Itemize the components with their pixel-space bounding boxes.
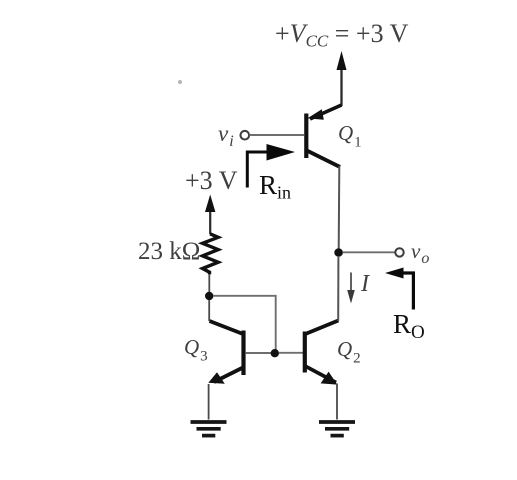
collector diagonal	[305, 321, 338, 335]
label Q2	[337, 339, 361, 360]
wire vi to Q1 base	[250, 134, 305, 136]
output node dot	[334, 248, 343, 257]
wire output node to vo terminal	[343, 251, 395, 253]
ground (under Q3)	[191, 422, 227, 436]
node B (base junction)	[271, 349, 279, 357]
label +VCC = +3 V	[275, 21, 408, 47]
emitter diagonal with arrow	[306, 367, 336, 383]
current arrow I	[347, 273, 355, 304]
collector diagonal	[210, 321, 244, 334]
base bar	[304, 114, 308, 159]
transistor Q3 (NPN, diode-connected, mirrored)	[208, 321, 243, 384]
stray scan speck	[178, 80, 182, 84]
wire resistor to node	[208, 274, 210, 294]
power +VCC supply arrow	[337, 51, 347, 106]
label vi	[218, 122, 234, 145]
label Q1	[338, 123, 362, 144]
label Q3	[184, 337, 208, 358]
wire Q1 collector down to output node	[338, 166, 341, 249]
wire junction to Q2 base	[279, 352, 303, 354]
base bar	[241, 331, 245, 376]
transistor Q1 (PNP)	[306, 105, 341, 167]
label vo	[411, 241, 429, 262]
Ro pointer arrow	[385, 268, 413, 310]
label Ro	[393, 311, 425, 338]
Rin pointer arrow	[247, 144, 295, 188]
ground (under Q2)	[319, 422, 355, 436]
collector diagonal	[307, 151, 340, 168]
wire Q3 base to junction	[246, 352, 271, 354]
node A (below resistor)	[205, 292, 213, 300]
wire node A down to Q3 collector	[208, 300, 210, 321]
base bar	[303, 332, 307, 373]
label I	[361, 272, 369, 296]
wire Q2 emitter to ground	[336, 384, 338, 420]
emitter diagonal with arrow	[214, 368, 243, 383]
output terminal vo circle	[395, 248, 403, 256]
wire Q3 emitter to ground	[208, 384, 210, 420]
label +3 V	[185, 168, 237, 194]
wire node A to base junction (right then down)	[213, 296, 276, 350]
label 23 kOhm	[138, 239, 200, 264]
label Rin	[259, 172, 291, 199]
power +3V supply arrow	[205, 195, 215, 235]
resistor 23 kOhm	[203, 234, 219, 275]
wire output node to Q2 collector	[337, 256, 339, 321]
transistor Q2 (NPN)	[305, 321, 339, 385]
emitter diagonal from VCC	[310, 105, 342, 119]
input terminal vi circle	[241, 131, 250, 140]
